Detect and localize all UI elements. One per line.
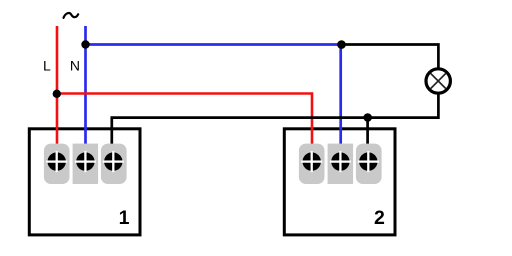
svg-text:2: 2 xyxy=(374,207,385,229)
svg-text:1: 1 xyxy=(119,207,130,229)
svg-text:N: N xyxy=(70,57,80,73)
svg-text:L: L xyxy=(43,57,51,73)
